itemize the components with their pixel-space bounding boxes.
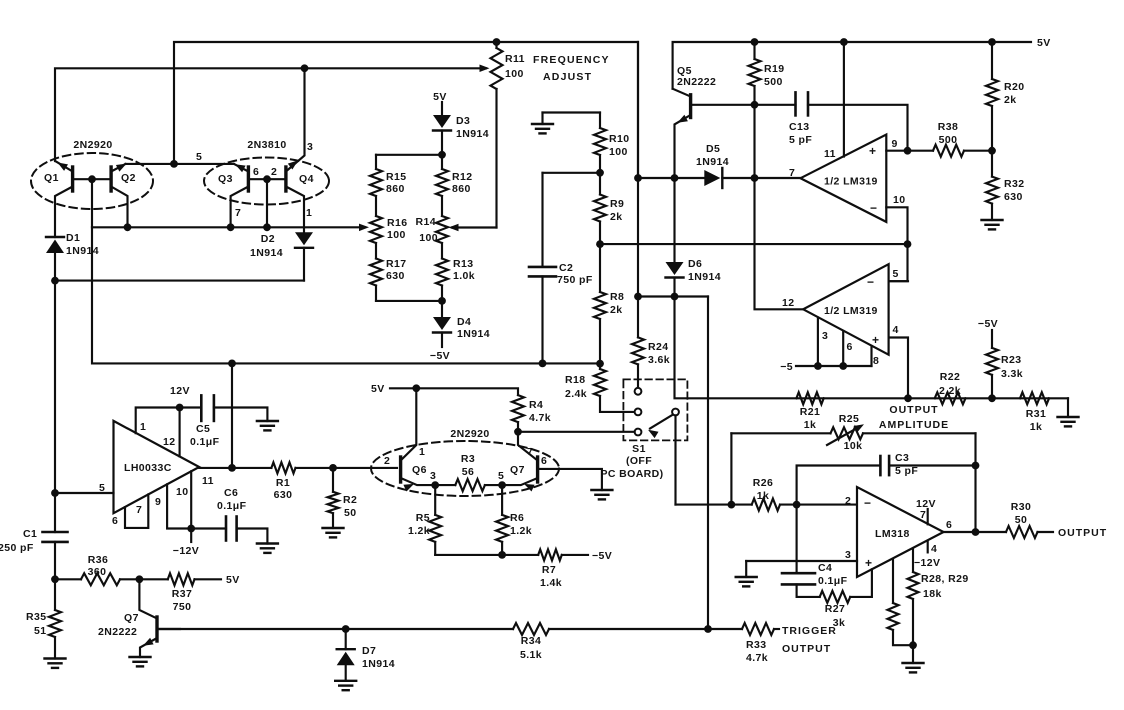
svg-text:R11: R11: [505, 53, 525, 65]
svg-text:2.2k: 2.2k: [939, 385, 961, 397]
svg-text:Q3: Q3: [218, 173, 233, 185]
label R35 51: [26, 611, 46, 637]
node Q1/Q2 base junction: [88, 175, 96, 183]
svg-text:C4: C4: [818, 562, 832, 574]
label R36 360: [88, 554, 109, 578]
svg-text:1.0k: 1.0k: [453, 270, 475, 282]
resistor R21: [796, 392, 823, 404]
diode D3: [433, 115, 451, 155]
label Q4: [299, 173, 314, 185]
label -12V: [173, 545, 199, 557]
svg-text:1N914: 1N914: [696, 156, 729, 168]
svg-text:R2: R2: [343, 494, 357, 506]
svg-text:−12V: −12V: [914, 557, 940, 569]
resistor R12: [436, 155, 448, 216]
svg-text:2.4k: 2.4k: [565, 388, 587, 400]
diode D4: [433, 301, 451, 347]
node R4 bottom junction: [514, 428, 522, 436]
svg-text:5V: 5V: [1037, 37, 1051, 49]
node D7 junction: [342, 625, 350, 633]
svg-text:2N2222: 2N2222: [677, 76, 716, 88]
wire -5 supply line: [796, 365, 872, 367]
node D1 anode junction: [51, 277, 59, 285]
transistor Q6: [401, 388, 436, 491]
svg-text:8: 8: [873, 355, 879, 367]
node R19 bottom / Q5 base / C13: [751, 101, 759, 109]
svg-text:−: −: [867, 275, 874, 289]
svg-text:Q7: Q7: [124, 612, 139, 624]
arrow R25 wiper: [827, 424, 864, 445]
label OUTPUT AMPLITUDE: [879, 404, 949, 431]
wire feedback node to pin 5: [889, 244, 908, 281]
svg-text:4: 4: [931, 543, 937, 555]
node Q6 emitter junction: [431, 481, 439, 489]
label pin 11: [202, 475, 214, 487]
svg-text:R38: R38: [938, 121, 958, 133]
capacitor C6: [226, 517, 267, 544]
svg-text:−5V: −5V: [978, 318, 998, 330]
svg-text:7: 7: [920, 509, 926, 521]
svg-text:750 pF: 750 pF: [557, 274, 593, 286]
label pin 1: [419, 446, 425, 458]
ground (pin 3): [736, 561, 757, 586]
svg-text:R3: R3: [461, 453, 475, 465]
label R6 1.2k: [510, 512, 532, 537]
svg-text:630: 630: [274, 489, 293, 501]
svg-text:R12: R12: [452, 171, 472, 183]
label D4 1N914: [457, 316, 490, 340]
svg-text:3: 3: [307, 141, 313, 153]
svg-text:2: 2: [271, 166, 277, 178]
label R5 1.2k: [408, 512, 430, 537]
wire base node down to collector rail: [91, 179, 93, 227]
svg-text:−: −: [864, 496, 871, 510]
wire feedback riser: [231, 363, 233, 468]
resistor R32: [986, 151, 998, 220]
svg-text:Q2: Q2: [121, 172, 136, 184]
svg-text:6: 6: [847, 341, 853, 353]
svg-text:R5: R5: [416, 512, 430, 524]
svg-text:1N914: 1N914: [457, 328, 490, 340]
svg-text:1N914: 1N914: [66, 245, 99, 257]
resistor R38: [908, 145, 993, 157]
label C2 750 pF: [557, 262, 593, 286]
svg-text:R19: R19: [764, 63, 784, 75]
label pin 7: [527, 446, 533, 458]
svg-text:7: 7: [235, 207, 241, 219]
label C13 5 pF: [789, 121, 812, 146]
node Q3/Q4 base at rail: [263, 223, 271, 231]
label pin 6: [847, 341, 853, 353]
node rail C / R19: [751, 38, 759, 46]
svg-text:(OFF: (OFF: [626, 455, 652, 467]
wire pin 8 drop: [870, 346, 872, 366]
transistor Q2: [111, 164, 127, 228]
svg-text:360: 360: [88, 566, 107, 578]
svg-text:1N914: 1N914: [362, 658, 395, 670]
label R33 4.7k: [746, 639, 768, 664]
ground (C6): [257, 544, 278, 553]
label Q3: [218, 173, 233, 185]
switch S1 dashed box: [623, 379, 687, 440]
wire 5V supply line: [390, 388, 518, 395]
svg-text:0.1μF: 0.1μF: [190, 436, 220, 448]
node Q6 collector at 5V line: [412, 384, 420, 392]
label R11 100: [505, 53, 525, 80]
label C5 0.1uF: [190, 423, 220, 448]
label C6 0.1uF: [217, 487, 247, 512]
diode D2: [295, 232, 313, 280]
svg-text:R30: R30: [1011, 501, 1031, 513]
node trigger at D6 vertical: [704, 625, 712, 633]
svg-text:12V: 12V: [170, 385, 190, 397]
potentiometer R14: [436, 216, 448, 259]
wire collector rail to R16 wiper: [92, 224, 369, 232]
node comparator feedback node: [904, 240, 912, 248]
resistor R26: [731, 499, 857, 511]
node 5 junction with rail A drop: [170, 160, 178, 168]
transistor Q5: [673, 89, 755, 178]
svg-text:3.3k: 3.3k: [1001, 368, 1023, 380]
wire -12V stub: [190, 529, 192, 543]
potentiometer R25: [731, 427, 975, 439]
op-amp U4 LM318: [857, 487, 944, 577]
label R13 1.0k: [453, 258, 475, 282]
resistor R19: [749, 42, 761, 105]
svg-text:500: 500: [939, 134, 958, 146]
svg-text:R37: R37: [172, 588, 192, 600]
svg-text:10: 10: [893, 194, 905, 206]
resistor R7: [538, 549, 562, 560]
svg-text:2N2920: 2N2920: [450, 428, 489, 440]
svg-text:6: 6: [946, 519, 952, 531]
svg-text:6: 6: [541, 455, 547, 467]
wire rail A (oscillator top rail): [174, 42, 638, 178]
label R20 2k: [1004, 81, 1024, 106]
svg-text:7: 7: [789, 167, 795, 179]
svg-text:1/2 LM319: 1/2 LM319: [824, 176, 878, 188]
resistor R24: [632, 297, 644, 388]
svg-text:5V: 5V: [226, 574, 240, 586]
node output node at D5 line: [751, 174, 759, 182]
svg-text:11: 11: [824, 148, 836, 160]
node R8/R18 junction: [596, 360, 604, 368]
label Q2: [121, 172, 136, 184]
wire node 5 (Q2 to Q3 emitters): [126, 163, 235, 165]
svg-text:TRIGGER: TRIGGER: [782, 625, 837, 637]
op-amp U2 1/2 LM319 (lower comparator): [803, 264, 888, 355]
label R12 860: [452, 171, 472, 195]
node D3 cathode / divider top: [438, 151, 446, 159]
wire vertical continues to R24 node: [637, 178, 639, 297]
node R10/C2 junction: [596, 169, 604, 177]
svg-text:R13: R13: [453, 258, 473, 270]
svg-text:C2: C2: [559, 262, 573, 274]
label pin 4: [931, 543, 937, 555]
wire R11 bottom to R14 wiper: [449, 224, 497, 231]
svg-text:R6: R6: [510, 512, 524, 524]
resistor R17: [370, 259, 442, 301]
svg-text:3.6k: 3.6k: [648, 354, 670, 366]
wire pin 12 riser: [179, 408, 181, 457]
node pin2/C3/C4 junction: [793, 501, 801, 509]
node output junction: [972, 528, 980, 536]
wire pin 6 drop: [842, 331, 844, 366]
wire R24/D6 node to corner: [638, 295, 708, 297]
transistor Q1: [55, 162, 73, 238]
dashed ellipse around Q1 Q2: [31, 153, 153, 209]
svg-text:1N914: 1N914: [456, 128, 489, 140]
ground (Q7 emitter): [130, 657, 151, 666]
svg-text:D6: D6: [688, 258, 702, 270]
resistor R8: [594, 244, 606, 364]
svg-text:R36: R36: [88, 554, 108, 566]
switch S1 terminal (R18): [635, 409, 642, 416]
label pin 3: [845, 549, 851, 561]
svg-text:1N914: 1N914: [688, 271, 721, 283]
capacitor C1: [43, 532, 68, 579]
wire Q1-Q2 base tie: [73, 178, 112, 180]
svg-text:R35: R35: [26, 611, 46, 623]
wire D6 down to R21 line: [675, 297, 1069, 399]
resistor R27: [820, 569, 872, 603]
label R15 860: [386, 171, 406, 195]
wire rail C 5V supply: [673, 42, 1031, 89]
svg-text:PC BOARD): PC BOARD): [600, 468, 663, 480]
wire trigger line: [157, 628, 742, 630]
svg-text:4.7k: 4.7k: [746, 652, 768, 664]
resistor R34: [513, 623, 549, 635]
label pin 7: [789, 167, 795, 179]
svg-text:100: 100: [419, 232, 438, 244]
label pin 6: [541, 455, 547, 467]
wire input line pin 5: [55, 492, 114, 494]
switch S1 wiper terminal: [672, 409, 679, 505]
svg-text:1: 1: [140, 421, 146, 433]
node C2 bottom junction: [539, 360, 547, 368]
label (OFF: [626, 455, 652, 467]
svg-text:−5: −5: [780, 361, 793, 373]
label pin 10: [893, 194, 905, 206]
label -5V (R23): [978, 318, 998, 330]
label pin 11: [824, 148, 836, 160]
svg-text:1: 1: [306, 207, 312, 219]
svg-text:−12V: −12V: [173, 545, 199, 557]
label 5V (D3 supply): [433, 91, 447, 103]
svg-text:D4: D4: [457, 316, 471, 328]
resistor R2: [328, 468, 339, 528]
svg-text:630: 630: [386, 270, 405, 282]
svg-text:4: 4: [893, 324, 899, 336]
wire pin 5 stub: [889, 280, 908, 282]
node R24 top junction: [634, 293, 642, 301]
op-amp U3 LH0033C buffer: [114, 421, 200, 513]
label Q1: [44, 172, 59, 184]
resistor R20: [986, 42, 998, 151]
svg-text:6: 6: [112, 515, 118, 527]
node C3 at output riser: [972, 462, 980, 470]
dashed ellipse around Q6 Q7: [371, 441, 559, 496]
resistor R10: [594, 113, 606, 173]
svg-text:2N3810: 2N3810: [247, 139, 286, 151]
svg-text:6: 6: [253, 166, 259, 178]
resistor R35: [49, 579, 61, 658]
label Q7 2N2222: [98, 612, 139, 638]
svg-text:1: 1: [419, 446, 425, 458]
svg-text:3: 3: [845, 549, 851, 561]
svg-text:1/2 LM319: 1/2 LM319: [824, 305, 878, 317]
resistor R37: [139, 573, 221, 585]
svg-text:R7: R7: [542, 564, 556, 576]
svg-text:5 pF: 5 pF: [895, 465, 918, 477]
node feedback at bottom line: [228, 360, 236, 368]
svg-text:R18: R18: [565, 374, 585, 386]
svg-text:R14: R14: [416, 216, 436, 228]
svg-text:100: 100: [505, 68, 524, 80]
node R28/R29 ground junction: [909, 641, 917, 649]
resistor R29: [908, 549, 919, 645]
svg-text:50: 50: [344, 507, 356, 519]
label R32 630: [1004, 178, 1024, 203]
wire D5 line: [638, 177, 801, 179]
label R18 2.4k: [565, 374, 587, 400]
label pin 10: [176, 486, 188, 498]
label R7 1.4k: [540, 564, 562, 589]
node R6 bottom junction: [498, 551, 506, 559]
label R3 56: [461, 453, 475, 478]
svg-text:OUTPUT: OUTPUT: [889, 404, 938, 416]
svg-text:D1: D1: [66, 232, 80, 244]
resistor R23: [986, 330, 998, 398]
label pin 5: [99, 482, 105, 494]
svg-text:750: 750: [173, 601, 192, 613]
svg-text:R24: R24: [648, 341, 668, 353]
wire pin 7 stub: [927, 509, 929, 524]
node Q3 collector at rail: [227, 223, 235, 231]
svg-text:−5V: −5V: [592, 550, 612, 562]
resistor R1: [271, 462, 333, 473]
node rail C / R20: [988, 38, 996, 46]
svg-text:5V: 5V: [433, 91, 447, 103]
label D7 1N914: [362, 645, 395, 670]
svg-text:R28, R29: R28, R29: [921, 573, 969, 585]
svg-text:FREQUENCY: FREQUENCY: [533, 54, 610, 66]
svg-text:5: 5: [893, 268, 899, 280]
diode D7: [337, 629, 355, 681]
svg-text:250 pF: 250 pF: [0, 542, 34, 554]
svg-text:R27: R27: [825, 603, 845, 615]
svg-text:3: 3: [822, 330, 828, 342]
label R17 630: [386, 258, 406, 282]
resistor R15: [370, 155, 382, 216]
svg-text:2N2920: 2N2920: [73, 139, 112, 151]
svg-text:2k: 2k: [610, 304, 622, 316]
svg-text:10: 10: [176, 486, 188, 498]
ground (Q7 pair base): [591, 490, 612, 499]
label pin 2: [845, 495, 851, 507]
svg-text:R16: R16: [387, 217, 407, 229]
label R14 100: [416, 216, 438, 244]
label OUTPUT: [1058, 527, 1107, 539]
node rail B / Q4 emitter junction: [301, 64, 309, 72]
label pin 12: [163, 436, 175, 448]
svg-text:Q1: Q1: [44, 172, 59, 184]
svg-text:0.1μF: 0.1μF: [818, 575, 848, 587]
label pin 6: [112, 515, 118, 527]
switch S1 terminal (R4): [635, 429, 642, 436]
potentiometer R11: [491, 42, 503, 228]
svg-text:860: 860: [386, 183, 405, 195]
node pin 6 junction: [839, 362, 847, 370]
svg-text:3: 3: [430, 470, 436, 482]
svg-text:Q7: Q7: [510, 464, 525, 476]
transistor Q7 (2N2920): [502, 432, 537, 492]
transistor Q7 2N2222: [139, 579, 180, 657]
label -5V (R7): [592, 550, 612, 562]
svg-text:+: +: [872, 333, 879, 347]
label R30 50: [1011, 501, 1031, 526]
svg-text:100: 100: [387, 229, 406, 241]
label R28, R29 18k: [921, 573, 969, 600]
node input node at pin 5 line: [51, 489, 59, 497]
wire feedback bottom line: [92, 227, 600, 363]
resistor R18: [594, 364, 637, 412]
svg-text:R22: R22: [940, 371, 960, 383]
label R19 500: [764, 63, 784, 88]
svg-text:12: 12: [163, 436, 175, 448]
svg-text:1k: 1k: [804, 419, 816, 431]
wire R25 right riser: [974, 433, 976, 532]
label R37 750: [172, 588, 192, 613]
label C3 5 pF: [895, 452, 918, 477]
wire pin 10 stub: [886, 207, 907, 244]
node comparator input / D5 line: [634, 174, 642, 182]
ground (D7): [335, 681, 356, 690]
node Q3/Q4 base junction: [263, 175, 271, 183]
label 5V (Q6 supply): [371, 383, 385, 395]
label D5 1N914: [696, 143, 729, 168]
label pin 6: [946, 519, 952, 531]
resistor R28: [888, 559, 914, 645]
label 2N2920 (Q1 Q2 pair): [73, 139, 112, 151]
wire pin 1 riser and 12V line: [136, 408, 202, 434]
label Q6: [412, 464, 427, 476]
wire R10 node to C2: [543, 173, 601, 267]
label D3 1N914: [456, 115, 489, 140]
switch S1 wiper arrow: [648, 415, 673, 439]
label R16 100: [387, 217, 407, 241]
svg-text:11: 11: [202, 475, 214, 487]
label R26 1k: [753, 477, 773, 502]
label pin 5: [196, 151, 202, 163]
resistor R13: [436, 259, 448, 301]
wire pin 4 stub: [889, 338, 908, 399]
node Q7 emitter junction: [498, 481, 506, 489]
resistor R4: [512, 395, 524, 432]
wire S1 wiper to R26 line: [676, 504, 732, 506]
label pin 3: [430, 470, 436, 482]
node R1/R2 junction: [329, 464, 337, 472]
label pin 5: [498, 470, 504, 482]
svg-text:1.4k: 1.4k: [540, 577, 562, 589]
svg-text:R26: R26: [753, 477, 773, 489]
wire Q7 base to ground: [538, 469, 602, 490]
wire divider top link: [376, 154, 442, 156]
wire pin 4 stub: [927, 541, 929, 552]
ground (R2): [323, 528, 344, 537]
node pin 4 at R21 line: [904, 394, 912, 402]
svg-text:D5: D5: [706, 143, 720, 155]
